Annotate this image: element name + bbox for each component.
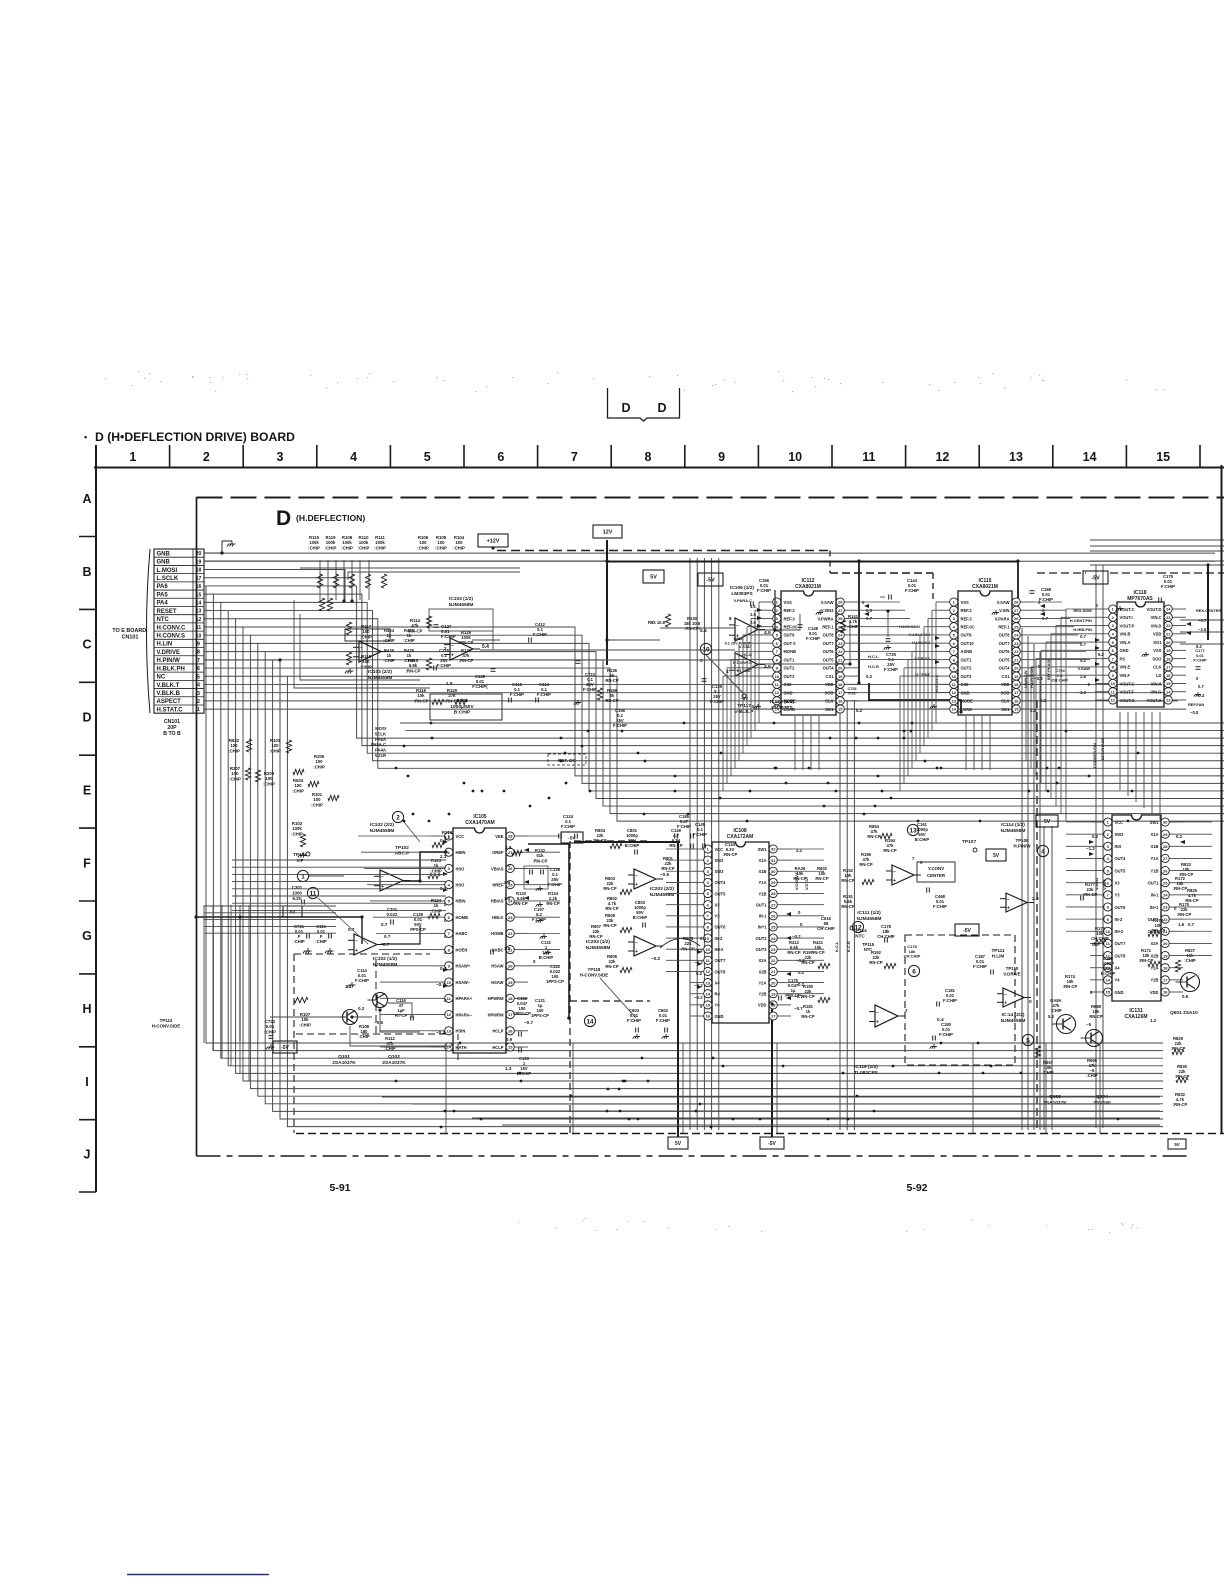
svg-text:H: H (82, 1002, 91, 1016)
svg-text:1.3: 1.3 (505, 1066, 512, 1071)
svg-text::CHIP: :CHIP (308, 545, 320, 550)
svg-text:CH:CHIP: CH:CHIP (877, 934, 895, 939)
svg-text:CXA126M: CXA126M (1124, 1014, 1147, 1020)
IC IC108 body (712, 842, 769, 1023)
svg-text:B:CHIP: B:CHIP (625, 843, 640, 848)
values at IC105 left pins (436, 838, 447, 1035)
svg-text:15: 15 (508, 1045, 513, 1050)
capacitor C722 0.01 CHIP (264, 1019, 276, 1050)
svg-text:2.3: 2.3 (1032, 896, 1039, 902)
svg-text:VOUT.P: VOUT.P (1120, 623, 1135, 628)
IC IC118 pin 15 (VIN.H) (1151, 679, 1186, 687)
svg-text::CHIP: :CHIP (299, 1022, 311, 1027)
svg-text:HSIN: HSIN (456, 1029, 466, 1034)
IC IC108 pin 15 (Y4) (690, 1001, 720, 1009)
svg-text:E: E (83, 783, 91, 797)
svg-text:RN-CP: RN-CP (801, 960, 814, 965)
resistor R832 4.7k RN-CP (1173, 1092, 1188, 1107)
svg-text:LD: LD (1156, 673, 1162, 678)
svg-text:26: 26 (1014, 616, 1019, 621)
IC IC131 pin 16 (VDD) (1150, 988, 1183, 996)
svg-text:BFF.PHASE: BFF.PHASE (1100, 737, 1105, 760)
svg-text:22: 22 (838, 649, 843, 654)
IC IC108 pin 29 (Y1A) (759, 878, 791, 886)
svg-text:OUT9: OUT9 (961, 633, 973, 638)
capacitor C149 4.7 RN-CP (669, 828, 682, 848)
svg-text:H.C.R: H.C.R (868, 664, 879, 669)
svg-text:16: 16 (1163, 990, 1168, 995)
svg-text:NJM4558M: NJM4558M (650, 892, 675, 898)
capacitor C181 0.01 F:CHIP (937, 988, 957, 1007)
svg-text:25: 25 (771, 925, 776, 930)
svg-text:OUT5: OUT5 (715, 891, 727, 896)
svg-text:F:CHIP: F:CHIP (933, 904, 947, 909)
power rail IC115 MODE link (869, 683, 961, 712)
resistors R657 R655 (1035, 1046, 1098, 1078)
svg-text:CN101: CN101 (122, 634, 139, 640)
transistor Q102 2SA1037K (373, 993, 388, 1008)
svg-text:X1B: X1B (759, 869, 767, 874)
resistor R808 22k RN-CP (603, 913, 632, 933)
svg-text:B:CHIP: B:CHIP (539, 955, 554, 960)
svg-text:V.SIN: V.SIN (999, 608, 1009, 613)
resistor R102 100k CHIP (291, 821, 306, 858)
IC IC115 pin 18 (VDD) (1001, 680, 1034, 688)
svg-text:H.PIN/W: H.PIN/W (157, 658, 181, 664)
IC IC108 pin 12 (OUT8) (690, 967, 726, 975)
capacitors C721 C115 (293, 924, 333, 954)
resistor R103 100 CHIP (269, 738, 291, 753)
svg-text::RN-CP: :RN-CP (532, 858, 547, 863)
svg-text:V.SIN: V.SIN (1102, 880, 1107, 890)
svg-text:23: 23 (1166, 615, 1171, 620)
IC IC112 pin 21 (OUT5) (823, 656, 858, 664)
svg-text:Y4: Y4 (715, 1003, 721, 1008)
IC IC118 pin 18 (SOO) (1152, 655, 1186, 663)
IC IC115 pin 25 (REF.1) (998, 623, 1034, 631)
IC IC112 pin 20 (OUT4) (823, 664, 858, 672)
svg-text:14: 14 (586, 1018, 594, 1025)
resistor R151 5.6k RN-CP (841, 894, 854, 909)
svg-text:5-91: 5-91 (329, 1182, 350, 1194)
svg-text:TP111: TP111 (991, 948, 1004, 953)
svg-text:1000: 1000 (292, 890, 302, 895)
capacitor C175b 0.01 F:CHIP at IC118 (1159, 574, 1175, 603)
svg-text:NTC: NTC (157, 617, 170, 623)
svg-text:•: • (84, 432, 87, 442)
svg-text::CHIP: :CHIP (264, 1029, 276, 1034)
svg-text:RN-CP: RN-CP (801, 994, 814, 999)
svg-text:0: 0 (444, 918, 447, 923)
svg-text:1: 1 (129, 450, 136, 464)
IC IC131 pin 21 (OUT3) (1148, 927, 1183, 935)
op-amp IC111 (1/2) NJM4558M (886, 862, 955, 885)
svg-text:CH:CHIP: CH:CHIP (904, 954, 921, 959)
node callout 12 (852, 921, 863, 932)
IC IC108 pin 11 (OUT7) (690, 956, 726, 964)
svg-text:IN-1: IN-1 (759, 914, 767, 919)
svg-text:15: 15 (1106, 990, 1111, 995)
svg-text:SW3: SW3 (715, 869, 725, 874)
svg-text:22: 22 (1166, 623, 1171, 628)
IC IC131 pin 25 (OUT1) (1148, 879, 1183, 887)
IC IC115 pin 4 (REF.0C) (936, 623, 975, 631)
svg-text:GNB: GNB (157, 551, 171, 557)
resistor R181 1k RN-CP (801, 1004, 814, 1019)
svg-text:12: 12 (775, 690, 780, 695)
capacitor C180 0.01 F:CHIP (930, 1022, 953, 1049)
resistor R101 100 CHIP (311, 792, 339, 807)
svg-text:REF.3: REF.3 (784, 616, 796, 621)
svg-text:RN-CP: RN-CP (593, 838, 606, 843)
svg-text:17: 17 (771, 1014, 776, 1019)
IC IC115 pin 5 (OUT9) (936, 631, 972, 639)
svg-text:−: − (1007, 897, 1010, 903)
svg-text:F:CHIP: F:CHIP (613, 723, 627, 728)
svg-text:VDD: VDD (1153, 632, 1162, 637)
svg-text:CXA8021M: CXA8021M (972, 584, 998, 590)
svg-text:0.2: 0.2 (1092, 834, 1099, 839)
svg-text:1.2(0.2): 1.2(0.2) (738, 652, 752, 657)
resistor R825 4.7k RN-CP (1185, 888, 1198, 903)
svg-text:1.2: 1.2 (1150, 1018, 1157, 1023)
svg-text:LM393PS: LM393PS (771, 705, 793, 711)
values at IC108 right pins (792, 848, 805, 1011)
capacitor C138 25V F:CHIP (524, 866, 562, 889)
svg-text:CS1: CS1 (826, 674, 835, 679)
IC IC105 pin 5 (HBIN) (431, 897, 466, 905)
svg-text:PA5A.C: PA5A.C (371, 742, 386, 747)
svg-text:Y3: Y3 (715, 914, 721, 919)
svg-text:RN-CP: RN-CP (841, 878, 854, 883)
svg-text:4: 4 (350, 450, 357, 464)
svg-text:NTC: NTC (855, 934, 865, 939)
svg-text:NJM4558M: NJM4558M (1001, 828, 1026, 834)
svg-text:22: 22 (508, 931, 513, 936)
svg-text:NJM4558M: NJM4558M (1001, 1018, 1026, 1024)
svg-text:TP118: TP118 (588, 967, 601, 972)
svg-text:18: 18 (1166, 656, 1171, 661)
svg-text:CS1: CS1 (1002, 674, 1011, 679)
op-amp IC203 (1/2) NJM4558M (628, 936, 663, 961)
IC IC105 pin 1 (VCC) (431, 832, 464, 840)
svg-text:−: − (635, 873, 638, 879)
svg-text:HCLP: HCLP (492, 1029, 503, 1034)
svg-text:18: 18 (838, 682, 843, 687)
capacitor C124 0.1 F:CHIP (559, 814, 578, 839)
svg-text:−: − (635, 940, 638, 946)
svg-text:23: 23 (838, 641, 843, 646)
svg-text:VOUT.H: VOUT.H (1146, 698, 1161, 703)
svg-text:H.STAT: H.STAT (738, 668, 752, 673)
svg-text:10: 10 (196, 633, 202, 639)
IC IC112 pin 18 (VDD) (825, 680, 858, 688)
inner dashed border right section top (1037, 572, 1086, 574)
svg-text:HPARA+: HPARA+ (456, 996, 473, 1001)
svg-text:VOUT.C: VOUT.C (1120, 607, 1135, 612)
svg-text:PA6A: PA6A (375, 737, 386, 742)
resistor R132 51k RN-CP (512, 848, 548, 863)
IC IC115 pin 1 (VSS) (936, 598, 969, 606)
svg-text:14: 14 (196, 600, 202, 606)
IC IC118 pin 20 (SO1) (1153, 638, 1186, 646)
svg-text:PS: PS (1120, 656, 1126, 661)
IC IC112 pin 5 (OUT9) (759, 631, 795, 639)
svg-text:BFF.PHASE: BFF.PHASE (1046, 658, 1051, 680)
capacitor C723 0.1 25V F:CHIP (574, 661, 597, 705)
svg-text:VIN.D: VIN.D (1151, 623, 1162, 628)
wire fan into IC112 left (723, 602, 759, 791)
resistor R141 4.7k CHIP (840, 614, 859, 633)
values at IC108 left pins (694, 936, 707, 1009)
svg-text:CXA172AM: CXA172AM (727, 834, 754, 840)
svg-text:24: 24 (838, 633, 843, 638)
svg-text:28: 28 (771, 891, 776, 896)
svg-text:V.SIN2: V.SIN2 (1094, 877, 1099, 890)
resistors R854 R194 R195 cluster (859, 824, 896, 867)
svg-text:MONB: MONB (784, 649, 797, 654)
IC IC118 pin 7 (PS) (1095, 655, 1125, 663)
svg-text::CHIP: :CHIP (360, 664, 372, 669)
svg-text:1.1: 1.1 (750, 604, 756, 609)
resistor R120 27k RN-CP (444, 688, 467, 705)
svg-text:−0.6: −0.6 (374, 1020, 384, 1025)
IC IC108 pin 24 (OUT2) (756, 934, 791, 942)
op-amp IC114 (1/2) NJM4558M (1000, 893, 1039, 912)
svg-text:+: + (1004, 1000, 1007, 1006)
svg-text:VDD: VDD (1150, 990, 1159, 995)
resistor R124 1k CHIP (428, 898, 442, 919)
svg-text:OUT6: OUT6 (823, 649, 835, 654)
svg-text:12: 12 (447, 1012, 452, 1017)
svg-text:V.CONV.C: V.CONV.C (794, 871, 799, 890)
svg-text:HPARA−: HPARA− (456, 1012, 473, 1017)
svg-text:CXA1470AM: CXA1470AM (465, 820, 494, 826)
svg-text:14: 14 (447, 1045, 452, 1050)
svg-text:5V: 5V (1174, 1142, 1179, 1147)
svg-text:V.DRIVE: V.DRIVE (157, 650, 180, 656)
svg-text:13: 13 (1166, 698, 1171, 703)
svg-text:H.LIN.SW: H.LIN.SW (1023, 670, 1028, 688)
svg-text:−: − (876, 1010, 879, 1016)
IC IC115 pin 19 (CS1) (1002, 672, 1034, 680)
svg-text:RN-CP: RN-CP (1185, 898, 1198, 903)
svg-text:5.2: 5.2 (856, 708, 863, 713)
svg-text:H.BLK.PH: H.BLK.PH (157, 666, 185, 672)
svg-text:GND: GND (1115, 990, 1124, 995)
svg-text:12V: 12V (603, 530, 613, 536)
svg-text:15: 15 (1014, 707, 1019, 712)
svg-text:REF.0C: REF.0C (784, 624, 798, 629)
resistor R117 100 CHIP (346, 622, 372, 639)
inner dashed box driver section (293, 954, 295, 1133)
transistor Q604 2SK160 (1086, 1030, 1103, 1047)
IC IC131 pin 6 (X3) (1090, 879, 1120, 887)
board outline top border (dashed) (197, 497, 1224, 499)
IC IC115 pin 21 (OUT5) (999, 656, 1034, 664)
svg-text:0: 0 (444, 998, 447, 1003)
IC IC105 pin 16 (HCLP) (492, 1027, 528, 1035)
svg-text:ABC.P: ABC.P (395, 851, 409, 856)
IC IC131 pin 27 (Y1A) (1151, 854, 1183, 862)
svg-text:1PPS-CP: 1PPS-CP (531, 1013, 549, 1018)
svg-text:H.STAT.C: H.STAT.C (157, 707, 184, 713)
svg-text:8: 8 (197, 650, 200, 656)
svg-text:OUT9: OUT9 (784, 633, 796, 638)
IC IC131 pin 5 (OUT5) (1090, 866, 1126, 874)
svg-text:PA4A: PA4A (375, 748, 386, 753)
IC IC105 pin 19 (HSAW) (491, 978, 528, 986)
svg-text:X3: X3 (1115, 881, 1121, 886)
IC IC115 pin 9 (OUT2) (936, 664, 972, 672)
svg-text:HT-CP: HT-CP (395, 1013, 408, 1018)
transistor Q601 2SA1037 (1181, 973, 1200, 992)
power flag 5V bottom right (1168, 1139, 1186, 1149)
capacitor C616 68 CH:CHIP (817, 916, 835, 931)
svg-text:NJM4558M: NJM4558M (449, 602, 474, 608)
capacitor C152 PPS-CP (513, 996, 531, 1016)
IC IC108 pin 21 (X2B) (759, 967, 791, 975)
wire thick 5V feed driver (239, 917, 241, 1041)
svg-text:F:CHIP: F:CHIP (757, 588, 771, 593)
top ruler grid columns 1-15 (94, 445, 1224, 468)
svg-text:0.7: 0.7 (1080, 634, 1086, 639)
IC IC118 pin 4 (VIN.B) (1095, 630, 1130, 638)
IC IC118 pin 16 (LD) (1156, 671, 1186, 679)
svg-text:26: 26 (771, 914, 776, 919)
IC IC112 pin 14 (LOAD) (759, 705, 795, 713)
resistor R174 10k RN-CP (1063, 974, 1078, 989)
svg-text:HBLK: HBLK (492, 915, 503, 920)
svg-text:8: 8 (729, 616, 732, 621)
svg-text:RN-CP: RN-CP (546, 901, 559, 906)
svg-text:−: − (355, 939, 358, 945)
rotated net label BFF.PHASE near IC118 (1023, 658, 1105, 768)
capacitor C502 label (430, 694, 502, 720)
resistor R209 100 CHIP (255, 770, 275, 786)
IC IC118 pin 3 (VOUT.P) (1095, 621, 1135, 629)
resistor R805 22k RN-CP (660, 936, 700, 951)
svg-text:VIN.E: VIN.E (1120, 665, 1131, 670)
IC IC131 pin 1 (VCC) (1090, 818, 1123, 826)
IC IC118 pin 24 (VOUT.D) (1146, 605, 1186, 613)
capacitor C128 PPS-CP (410, 912, 426, 932)
resistor R190 22k RN-CP (801, 984, 830, 1003)
svg-text:HOEN: HOEN (456, 947, 468, 952)
svg-text:15: 15 (196, 592, 202, 598)
svg-text:16: 16 (1014, 698, 1019, 703)
svg-text:10: 10 (952, 674, 957, 679)
capacitor C175 PPS-CP (779, 978, 801, 1001)
svg-text:7: 7 (571, 450, 578, 464)
power rail IC115 VDD vertical (1017, 562, 1019, 684)
IC IC115 pin 14 (LOAD) (936, 705, 972, 713)
svg-text:0.7: 0.7 (384, 934, 391, 939)
wire fan IC118 left elbows (1026, 609, 1095, 821)
connector CN101 (147, 549, 205, 713)
svg-text:OUT8: OUT8 (715, 969, 727, 974)
svg-text:SO1: SO1 (1001, 707, 1010, 712)
IC IC108 pin 2 (SW2) (690, 856, 724, 864)
svg-text:1000µ/50V: 1000µ/50V (450, 704, 474, 710)
IC IC108 pin 4 (OUT4) (690, 878, 726, 886)
svg-text:F:CHIP: F:CHIP (537, 692, 551, 697)
wire diag pointer circled 11 (318, 898, 368, 944)
svg-text:V.21R: V.21R (375, 753, 386, 758)
power flag -5V near IC105 (561, 832, 583, 843)
svg-text:OUT1: OUT1 (784, 657, 796, 662)
svg-text:INS: INS (1115, 844, 1122, 849)
wire fan out of IC115 right (1034, 602, 1090, 660)
svg-text:LM393PS: LM393PS (731, 591, 753, 597)
svg-text:15: 15 (1156, 450, 1170, 464)
wire bus GNB rails (204, 553, 1215, 561)
op-amp IC203 (2/2) NJM4558M (628, 869, 670, 889)
svg-text:9: 9 (718, 450, 725, 464)
power rail -5V bottom mid (771, 1004, 773, 1137)
svg-text:5V: 5V (675, 1141, 682, 1147)
svg-text:VCC: VCC (1115, 820, 1124, 825)
resistor R114 47k RN-CP (407, 616, 431, 633)
svg-text:OUT5: OUT5 (1115, 868, 1127, 873)
svg-text:5.2: 5.2 (1196, 644, 1202, 649)
svg-text::RN-CP: :RN-CP (405, 668, 420, 673)
IC IC131 pin 29 (X1A) (1151, 830, 1183, 838)
wire IC103 to IC106 (472, 628, 735, 660)
svg-text:OUT7: OUT7 (715, 958, 727, 963)
svg-text:HBIN: HBIN (456, 899, 466, 904)
svg-text:HATH: HATH (456, 1045, 467, 1050)
power flag 5V top (643, 570, 664, 583)
svg-text::CHIP: :CHIP (269, 748, 281, 753)
node callout 4 (1037, 845, 1048, 856)
capacitor C161 1000p B:CHIP (915, 822, 930, 842)
resistors R106 R105 R104 100 CHIP (417, 535, 465, 550)
svg-text:NC: NC (157, 675, 166, 681)
svg-text:23: 23 (771, 947, 776, 952)
svg-text:10: 10 (1106, 929, 1111, 934)
node callout 6 (908, 965, 919, 976)
wire driver area connections (196, 852, 453, 1046)
svg-text::CHIP: :CHIP (228, 748, 240, 753)
svg-text:OUT2: OUT2 (961, 666, 973, 671)
svg-text:REF.2: REF.2 (784, 608, 796, 613)
power flag -5V top right (1083, 571, 1108, 584)
svg-text:5: 5 (1026, 1037, 1030, 1044)
svg-text:TP102: TP102 (395, 845, 409, 850)
svg-text:VOUT.G: VOUT.G (1120, 698, 1135, 703)
IC IC112 pin 8 (OUT1) (759, 656, 795, 664)
svg-text:B:CHIP: B:CHIP (1101, 971, 1116, 976)
svg-text:C: C (82, 638, 91, 652)
svg-text:REF.2: REF.2 (961, 608, 973, 613)
input labels at IC115 left (908, 632, 939, 692)
svg-text:H.LIN: H.LIN (157, 642, 173, 648)
wire fan into IC105 left (358, 836, 431, 1047)
svg-text:23: 23 (508, 915, 513, 920)
svg-text:SOO: SOO (1152, 656, 1162, 661)
svg-text:16: 16 (838, 698, 843, 703)
resistor R107 10k CHIP (294, 997, 311, 1027)
values near IC131 (1086, 834, 1189, 1023)
svg-text:RN-CP: RN-CP (867, 834, 880, 839)
svg-text:9: 9 (197, 642, 200, 648)
svg-text:V.PWRA: V.PWRA (818, 616, 834, 621)
IC IC108 pin 6 (X3) (690, 901, 720, 909)
grounds IC112 area (754, 606, 1149, 709)
svg-text:PA5: PA5 (157, 592, 169, 598)
resistor R804 22k RN-CP (593, 828, 622, 849)
